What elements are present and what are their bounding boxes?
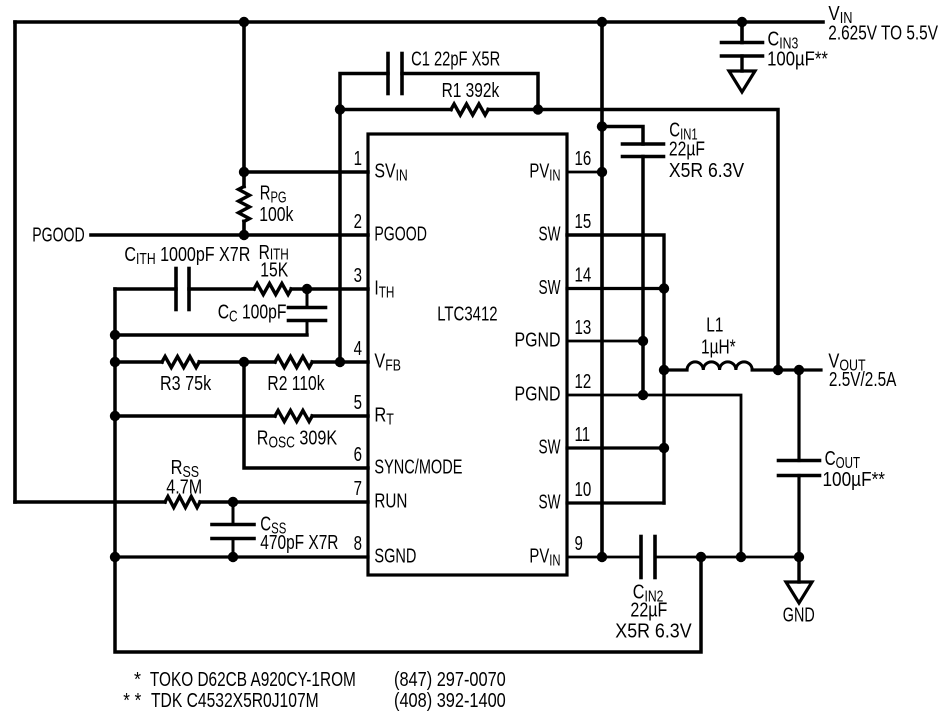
- svg-text:LTC3412: LTC3412: [437, 302, 497, 325]
- wire CITH to RITH: [189, 287, 254, 291]
- svg-text:COUT: COUT: [825, 447, 861, 472]
- resistor R3: [162, 357, 199, 368]
- svg-text:VFB: VFB: [374, 349, 401, 374]
- svg-text:9: 9: [575, 532, 583, 555]
- svg-text:SW: SW: [539, 435, 561, 459]
- capacitor C1: [386, 54, 390, 94]
- wire C1 left lead and VFB column: [340, 74, 388, 363]
- svg-text:14: 14: [575, 263, 592, 286]
- capacitor COUT: [779, 459, 820, 463]
- wire RT row left: [115, 414, 275, 418]
- wire RUN row right segment to pin 7: [200, 500, 368, 503]
- resistor ROSC: [275, 411, 312, 422]
- svg-text:R3 75k: R3 75k: [160, 371, 212, 394]
- wire L1 left lead: [664, 368, 687, 371]
- svg-text:100µF**: 100µF**: [767, 47, 828, 70]
- svg-text:10: 10: [575, 478, 592, 501]
- svg-text:SW: SW: [539, 490, 561, 514]
- node SGND column / VFB row: [110, 357, 120, 367]
- resistor RPG: [239, 187, 250, 222]
- wire CSS bottom stub: [232, 539, 235, 558]
- svg-text:CC 100pF: CC 100pF: [218, 299, 287, 324]
- svg-text:1µH*: 1µH*: [701, 335, 736, 358]
- svg-text:470pF X7R: 470pF X7R: [260, 531, 338, 554]
- wire CIN1 bottom column: [641, 157, 645, 396]
- wire VFB row left: [115, 360, 162, 364]
- node VFB column / R1 row: [335, 104, 345, 114]
- ground symbol GND: [786, 582, 812, 603]
- svg-text:(408) 392-1400: (408) 392-1400: [394, 688, 506, 711]
- node R3-R2 junction: [239, 357, 249, 367]
- node bottom return / pin 9 row: [696, 552, 706, 562]
- wire PGND pin 12 to ground column: [567, 395, 741, 557]
- svg-text:PVIN: PVIN: [529, 544, 560, 569]
- svg-text:ROSC 309K: ROSC 309K: [257, 426, 338, 451]
- node VIN rail / PVIN column: [597, 17, 607, 27]
- svg-text:15: 15: [575, 210, 592, 233]
- svg-text:L1: L1: [706, 313, 723, 336]
- wire C1 right lead down to R1 row: [402, 74, 538, 110]
- svg-text:8: 8: [354, 532, 362, 555]
- node pin16 / PVIN column: [597, 167, 607, 177]
- svg-text:PGND: PGND: [515, 382, 561, 405]
- svg-text:4: 4: [354, 337, 362, 360]
- wire CSS top stub: [232, 502, 235, 525]
- wire CIN3 bottom stub: [740, 56, 743, 71]
- svg-text:SW: SW: [539, 222, 561, 246]
- wire CC bottom stub: [306, 321, 309, 336]
- wire SW pin 14 stub: [567, 287, 664, 290]
- svg-text:PGND: PGND: [515, 328, 561, 351]
- node VIN rail / CIN3: [737, 17, 747, 27]
- node SW column / pin 11: [659, 443, 669, 453]
- wire R1 row to VOUT drop: [488, 110, 778, 371]
- wire SVIN pin 1: [244, 170, 368, 174]
- svg-text:RUN: RUN: [374, 489, 407, 512]
- node VIN rail / RPG: [239, 17, 249, 27]
- capacitor CSS: [212, 523, 254, 527]
- op-amp U1 LTC3412 body: [368, 134, 567, 575]
- svg-text:1: 1: [354, 147, 362, 170]
- svg-text:C1 22pF X5R: C1 22pF X5R: [411, 47, 500, 70]
- wire R3 to R2: [199, 360, 275, 364]
- svg-text:4.7M: 4.7M: [166, 475, 202, 498]
- svg-text:15K: 15K: [260, 257, 288, 281]
- svg-text:3: 3: [354, 264, 362, 287]
- resistor RSS: [165, 497, 200, 508]
- wire RPG top lead from VIN rail: [242, 22, 246, 187]
- node PVIN column / pin 9: [597, 552, 607, 562]
- node COUT / VOUT: [794, 365, 804, 375]
- wire COUT bottom lead: [797, 476, 800, 558]
- resistor R1: [451, 104, 488, 115]
- svg-text:12: 12: [575, 370, 592, 393]
- svg-text:7: 7: [354, 477, 362, 500]
- wire PVIN pin 16 stub: [567, 171, 602, 174]
- svg-text:R1 392k: R1 392k: [442, 79, 500, 102]
- svg-text:PVIN: PVIN: [529, 159, 560, 184]
- capacitor CIN3: [722, 41, 763, 45]
- wire left border: [13, 22, 17, 502]
- wire RUN row left segment: [15, 500, 165, 504]
- wire SW pin 10 stub: [567, 501, 664, 504]
- svg-text:GND: GND: [783, 603, 815, 626]
- svg-text:SW: SW: [539, 275, 561, 299]
- node SW column / L1: [659, 365, 669, 375]
- resistor RITH: [254, 284, 291, 295]
- node pin12 column / pin 9 row: [736, 552, 746, 562]
- svg-text:RT: RT: [374, 403, 394, 428]
- wire CITH left lead: [115, 287, 176, 291]
- node CSS / SGND row: [228, 552, 238, 562]
- node R1 drop / VOUT: [773, 365, 783, 375]
- node VFB column / pin 4: [335, 357, 345, 367]
- wire ITH pin 3 lead: [291, 287, 368, 291]
- svg-text:X5R 6.3V: X5R 6.3V: [669, 160, 744, 183]
- capacitor CIN2: [639, 537, 643, 578]
- svg-text:2.5V/2.5A: 2.5V/2.5A: [829, 368, 897, 391]
- node ITH pin / CC: [302, 284, 312, 294]
- node PVIN column / CIN1 branch: [597, 121, 607, 131]
- svg-text:22µF: 22µF: [669, 136, 705, 160]
- svg-text:CITH 1000pF X7R: CITH 1000pF X7R: [124, 242, 250, 267]
- node SGND column / RT row: [110, 411, 120, 421]
- svg-text:(847) 297-0070: (847) 297-0070: [394, 667, 506, 690]
- svg-text:* *: * *: [123, 689, 142, 712]
- svg-text:SYNC/MODE: SYNC/MODE: [374, 455, 462, 478]
- node SGND column / SGND row: [110, 552, 120, 562]
- wire R1 left lead: [340, 108, 451, 112]
- svg-text:SVIN: SVIN: [374, 159, 407, 184]
- node CIN1 column / pin 12: [638, 390, 648, 400]
- wire COUT top lead: [797, 370, 800, 461]
- svg-text:13: 13: [575, 316, 592, 339]
- resistor R2: [275, 357, 312, 368]
- node SGND column / CC row: [110, 330, 120, 340]
- svg-text:22µF: 22µF: [630, 598, 667, 621]
- svg-text:PGOOD: PGOOD: [32, 223, 84, 246]
- wire CIN3 top lead: [740, 22, 744, 43]
- node RPG / PGOOD row: [239, 230, 249, 240]
- wire GND stub: [797, 557, 800, 582]
- wire SGND row pin 8: [115, 555, 368, 558]
- wire CIN1 top branch: [602, 127, 643, 145]
- svg-text:100µF**: 100µF**: [823, 469, 886, 492]
- wire SW pin 11 stub: [567, 446, 664, 449]
- wire VIN top rail: [15, 20, 823, 24]
- wire SYNC/MODE branch: [244, 362, 368, 468]
- svg-text:SGND: SGND: [374, 544, 416, 567]
- svg-text:11: 11: [575, 423, 591, 446]
- wire VFB pin 4 lead: [312, 360, 368, 364]
- svg-text:PGOOD: PGOOD: [374, 222, 426, 245]
- svg-text:ITH: ITH: [374, 276, 394, 300]
- inductor L1: [687, 362, 752, 370]
- wire pin 9 row right of CIN2: [655, 556, 799, 559]
- wire CC bottom row: [115, 333, 307, 337]
- svg-text:2: 2: [354, 210, 362, 233]
- wire CC top stub: [306, 289, 309, 308]
- node CIN1 column / pin 13: [638, 336, 648, 346]
- svg-text:16: 16: [575, 147, 592, 170]
- wire PGND pin 13 stub: [567, 340, 643, 343]
- ground symbol at CIN3: [729, 71, 755, 92]
- svg-text:X5R 6.3V: X5R 6.3V: [615, 620, 691, 642]
- wire SGND left column and bottom return: [115, 289, 701, 652]
- capacitor CIN1: [623, 142, 664, 146]
- wire PGOOD row: [91, 233, 368, 237]
- wire VOUT lead: [752, 368, 821, 371]
- svg-text:TDK C4532X5R0J107M: TDK C4532X5R0J107M: [151, 688, 319, 712]
- node C1 right / R1 row: [533, 104, 543, 114]
- wire SW pin 15 and SW column: [567, 235, 664, 503]
- svg-text:6: 6: [354, 443, 362, 466]
- svg-text:5: 5: [354, 391, 362, 414]
- node COUT column / GND: [794, 552, 804, 562]
- node RPG / SVIN row: [239, 167, 249, 177]
- wire PVIN pin 9 left of CIN2: [567, 556, 641, 559]
- svg-text:R2 110k: R2 110k: [267, 371, 325, 395]
- wire PVIN column: [600, 22, 604, 557]
- svg-text:100k: 100k: [259, 202, 294, 226]
- capacitor CITH: [174, 269, 178, 310]
- node SW column / pin 14: [659, 283, 669, 293]
- capacitor CC: [289, 306, 326, 310]
- wire RPG bottom lead to PGOOD row: [242, 221, 246, 235]
- svg-text:2.625V TO 5.5V: 2.625V TO 5.5V: [828, 21, 938, 44]
- node CSS / RUN row: [228, 497, 238, 507]
- wire RT pin 5 lead: [312, 414, 368, 418]
